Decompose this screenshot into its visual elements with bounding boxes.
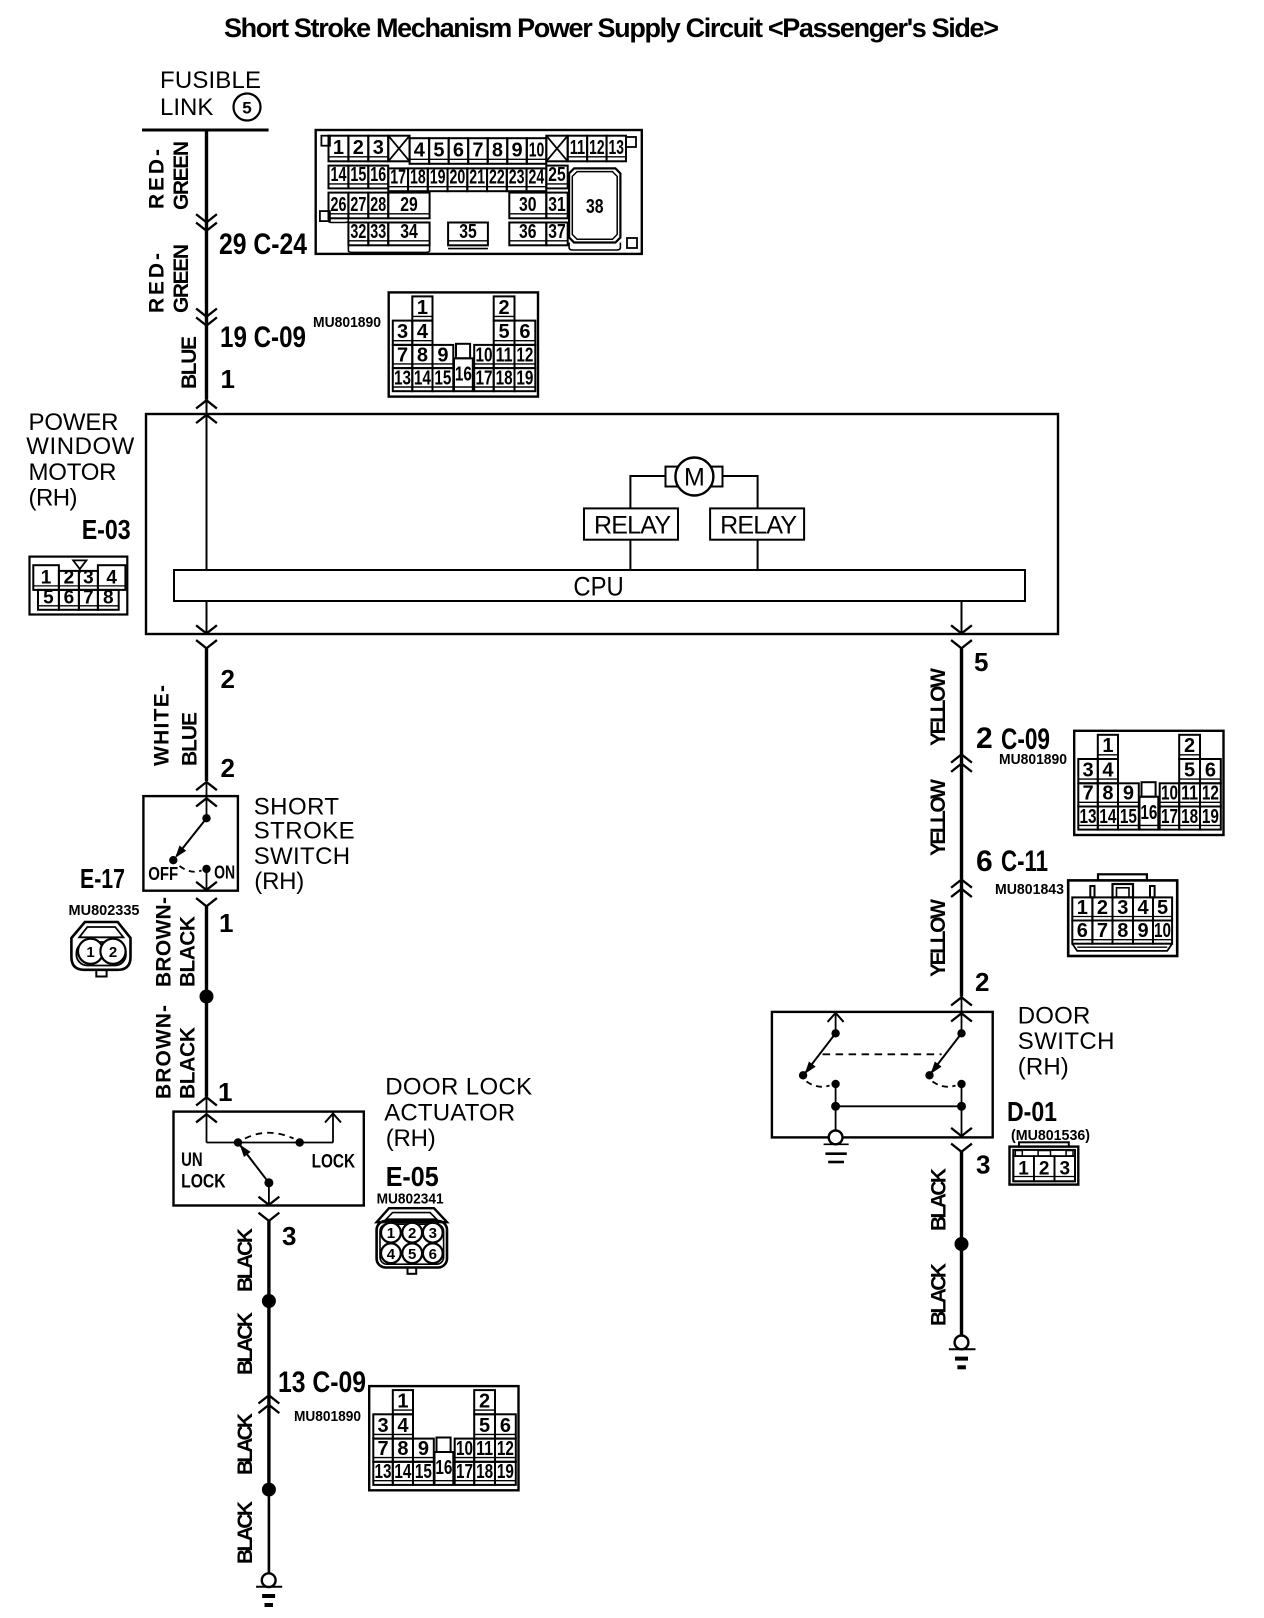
svg-text:12: 12 [1202,783,1219,805]
svg-text:10: 10 [456,1438,473,1460]
svg-text:9: 9 [418,1438,429,1460]
motor circle M [675,458,713,496]
wire from ON contact to switch box bottom [206,869,208,891]
connector view E-17 (2-pin) [71,922,130,977]
svg-text:17: 17 [475,367,492,389]
svg-text:GREEN: GREEN [170,141,193,210]
splice junction dot [200,990,214,1004]
wire: CPU to box bottom (left, pin 2) [206,601,208,634]
svg-text:4: 4 [397,1415,409,1437]
svg-text:3: 3 [377,1415,388,1437]
door switch left lower contact dot [831,1080,839,1088]
chevrons at motor box exit left [197,626,216,648]
svg-text:16: 16 [1140,802,1157,824]
svg-text:32: 32 [350,221,366,243]
svg-text:11: 11 [496,344,513,366]
chevrons at switch exit (E-17 pin 1) [197,883,216,907]
door lock actuator name text [384,1074,532,1153]
svg-text:2: 2 [975,967,989,997]
svg-text:9: 9 [437,344,448,366]
svg-text:(RH): (RH) [29,485,78,512]
svg-text:2: 2 [1184,735,1195,757]
svg-text:10: 10 [1161,783,1178,805]
svg-text:OFF: OFF [148,864,178,884]
svg-text:E-05: E-05 [386,1161,439,1192]
svg-text:(RH): (RH) [386,1125,436,1152]
svg-text:7: 7 [472,139,483,161]
svg-text:POWER: POWER [29,409,119,436]
wire color label BROWN-BLACK (lower) [153,1005,200,1099]
svg-text:DOOR LOCK: DOOR LOCK [385,1074,532,1101]
svg-text:14: 14 [414,367,432,389]
svg-text:13: 13 [394,367,411,389]
svg-text:22: 22 [489,167,505,189]
svg-text:6: 6 [1077,920,1088,942]
CPU box [174,570,1025,601]
svg-text:3: 3 [282,1221,296,1251]
svg-text:4: 4 [414,139,426,161]
door switch rail junction dot right [957,1102,966,1111]
motor brush housing rectangle [666,467,723,487]
svg-text:YELLOW: YELLOW [927,668,950,746]
door switch right lower contact dot [957,1080,965,1088]
chevrons at actuator exit (E-05 pin 3) [259,1197,278,1221]
svg-text:15: 15 [434,367,451,389]
wire YELLOW thick segment 3 [960,880,963,997]
label: pin 6 connector C-11 [976,845,1048,878]
svg-text:7: 7 [397,344,408,366]
relay box right [710,508,804,539]
door switch rail junction dot left [831,1102,840,1111]
svg-text:5: 5 [1157,897,1168,919]
splice junction dot right [955,1237,969,1251]
wire BLACK thick segment right 2 [960,1244,963,1336]
svg-text:15: 15 [415,1461,432,1483]
svg-text:1: 1 [397,1391,408,1413]
svg-text:3: 3 [373,137,384,159]
svg-text:19 C-09: 19 C-09 [220,321,306,354]
svg-text:2: 2 [221,753,235,783]
svg-text:5: 5 [433,139,444,161]
svg-text:4: 4 [417,321,429,343]
door switch left branch up-arrow [828,1013,844,1033]
switch OFF contact dot [169,856,177,864]
svg-text:4: 4 [387,1246,396,1263]
svg-text:12: 12 [516,344,533,366]
svg-text:(RH): (RH) [1018,1054,1069,1081]
svg-text:1: 1 [417,297,428,319]
svg-text:LOCK: LOCK [181,1172,226,1193]
svg-text:RELAY: RELAY [720,512,797,540]
svg-text:YELLOW: YELLOW [927,899,950,977]
svg-text:3: 3 [1117,897,1128,919]
svg-text:30: 30 [519,194,537,216]
svg-text:YELLOW: YELLOW [927,779,950,856]
svg-text:1: 1 [218,1077,232,1107]
svg-text:DOOR: DOOR [1018,1003,1091,1030]
svg-text:6: 6 [519,321,530,343]
svg-text:11: 11 [570,137,585,159]
wire BLACK segment to connector C-09 pin 13 [267,1301,270,1393]
connector view C-11 (10-pin, MU801843) [1068,874,1177,956]
svg-text:BLUE: BLUE [178,336,201,389]
svg-text:8: 8 [492,139,503,161]
wire: CPU to box bottom (right, pin 5) [961,601,963,634]
wire YELLOW thick segment 2 [960,754,963,880]
svg-text:ON: ON [214,863,235,883]
svg-text:29 C-24: 29 C-24 [219,228,307,261]
svg-text:17: 17 [390,167,406,189]
wire color label RED-GREEN (upper) [146,141,194,210]
svg-text:14: 14 [394,1461,412,1483]
label UN LOCK [181,1150,226,1193]
svg-text:7: 7 [1097,920,1108,942]
svg-text:BLACK: BLACK [928,1263,951,1326]
svg-text:1: 1 [41,568,52,589]
actuator lever with arrowhead to UNLOCK [236,1142,269,1183]
body ground symbol (right) [949,1336,976,1368]
svg-text:19: 19 [516,367,533,389]
svg-text:35: 35 [459,221,477,243]
svg-text:BLACK: BLACK [177,916,200,987]
svg-text:ACTUATOR: ACTUATOR [384,1100,515,1127]
actuator LOCK contact dot [296,1138,304,1146]
door switch left vertical to rail [835,1084,837,1106]
svg-text:5: 5 [479,1415,490,1437]
svg-text:MU801843: MU801843 [995,881,1064,898]
svg-text:4: 4 [1137,897,1149,919]
svg-text:2: 2 [1097,897,1108,919]
chevrons at door lock actuator entry [197,1097,216,1121]
svg-text:BROWN-: BROWN- [153,897,176,987]
door switch right dashed throw arc [933,1082,956,1087]
svg-text:16: 16 [435,1457,452,1479]
svg-text:8: 8 [417,344,428,366]
svg-text:14: 14 [1099,806,1117,828]
wire BROWN-BLACK thick segment to door lock actuator [205,997,208,1097]
fusible link label [160,67,261,121]
svg-text:GREEN: GREEN [170,244,193,313]
actuator common contact dot [264,1178,273,1187]
svg-text:MOTOR: MOTOR [29,459,117,486]
door switch left dashed throw arc [807,1082,830,1087]
svg-text:5: 5 [43,588,54,609]
svg-text:3: 3 [976,1150,990,1180]
wire color label BROWN-BLACK (upper) [153,897,200,987]
svg-text:10: 10 [529,139,545,161]
wire YELLOW thick segment 1 [960,648,963,753]
wire BLACK final segment to body ground [268,1490,271,1574]
svg-text:8: 8 [1117,920,1128,942]
svg-text:18: 18 [1181,806,1198,828]
svg-text:1: 1 [219,908,233,938]
in-line connector symbol C-24 pin 29 (double chevron) [197,215,216,231]
in-line connector symbol C-09 pin 2 (double chevron) [952,754,971,771]
svg-text:17: 17 [1161,806,1178,828]
switch ON contact dot [202,865,210,873]
svg-text:2: 2 [976,722,993,755]
switch common contact dot [202,814,210,822]
door switch rail horizontal [836,1105,962,1107]
svg-text:18: 18 [410,167,426,189]
svg-text:19: 19 [430,167,446,189]
svg-text:18: 18 [476,1461,493,1483]
wire WHITE-BLUE thick segment [205,648,208,781]
svg-text:BLACK: BLACK [177,1027,200,1099]
door switch left top contact dot [831,1029,839,1037]
svg-text:20: 20 [450,167,466,189]
svg-text:2: 2 [221,664,235,694]
svg-text:1: 1 [1018,1158,1029,1179]
svg-text:18: 18 [496,367,513,389]
svg-text:34: 34 [400,221,418,243]
splice junction dot 2 [262,1294,276,1308]
wire BROWN-BLACK thick segment to splice [205,906,208,996]
svg-text:12: 12 [497,1438,514,1460]
svg-text:7: 7 [1082,783,1093,805]
wire BLACK thick segment right 1 [960,1152,963,1244]
svg-text:3: 3 [397,321,408,343]
svg-text:9: 9 [1123,783,1134,805]
svg-text:13: 13 [375,1461,392,1483]
door switch left lever end dot [799,1071,807,1079]
svg-text:31: 31 [548,194,565,216]
door switch name text [1018,1003,1115,1081]
svg-text:BLACK: BLACK [234,1501,257,1564]
chevrons at door switch entry [952,997,971,1021]
connector view C-09 instance 3 (MU801890, bottom left) [369,1386,518,1490]
door switch right lever with arrowhead [927,1033,961,1076]
svg-text:1: 1 [333,137,344,159]
svg-text:1: 1 [1102,735,1113,757]
svg-text:1: 1 [86,944,94,961]
svg-text:11: 11 [1181,783,1198,805]
door switch left lever with arrowhead [801,1033,835,1076]
actuator UNLOCK contact dot [234,1138,242,1146]
svg-text:2: 2 [109,944,117,961]
chevrons at motor box exit right [952,626,971,648]
relay box left [584,508,678,539]
fusible link bus bar [142,129,269,132]
connector view C-09 instance 1 (MU801890, top left) [389,292,538,396]
wire BLACK segment to splice 3 [267,1393,270,1490]
svg-text:16: 16 [370,164,386,186]
wire: motor left lead to relay [630,475,665,508]
svg-text:2: 2 [1039,1158,1050,1179]
svg-text:12: 12 [589,137,604,159]
svg-text:MU802341: MU802341 [377,1191,444,1208]
connector view C-09 instance 2 (right) [1074,731,1223,835]
svg-text:MU801890: MU801890 [313,314,381,331]
wire into door switch right contact [961,997,963,1033]
svg-text:8: 8 [103,588,114,609]
svg-text:2: 2 [64,568,75,589]
power window motor name text [26,409,134,512]
chevrons at door switch exit (D-01 pin 3) [952,1129,971,1152]
svg-text:10: 10 [1154,920,1171,942]
svg-text:MU801890: MU801890 [294,1408,361,1425]
svg-text:UN: UN [181,1150,203,1171]
svg-text:SWITCH: SWITCH [254,843,350,870]
svg-text:BLACK: BLACK [234,1228,257,1292]
splice junction dot 3 [262,1483,276,1497]
svg-text:6: 6 [453,139,464,161]
svg-text:1: 1 [221,364,235,394]
svg-text:15: 15 [1120,806,1137,828]
svg-text:15: 15 [350,164,366,186]
svg-text:5: 5 [242,99,251,118]
label: pin 2 connector C-09 (right) [976,722,1050,756]
svg-text:7: 7 [83,588,94,609]
wire inside actuator from entry down to contact rail [206,1097,208,1142]
svg-text:E-03: E-03 [82,514,131,545]
in-line connector symbol C-09 pin 19 (double chevron) [197,309,216,325]
short stroke switch name text [254,794,355,896]
svg-text:29: 29 [400,194,418,216]
svg-text:MU801890: MU801890 [999,751,1067,768]
svg-text:9: 9 [1137,920,1148,942]
svg-text:5: 5 [1184,760,1195,782]
svg-text:LINK: LINK [160,94,213,121]
wire from rail to door switch box bottom [961,1106,963,1137]
svg-text:SHORT: SHORT [254,794,340,821]
svg-text:2: 2 [499,297,510,319]
door switch right lever end dot [925,1071,933,1079]
svg-text:37: 37 [548,221,565,243]
door switch (RH) box [772,1012,993,1138]
svg-text:25: 25 [548,164,565,186]
wire: right relay to CPU [757,540,759,570]
chevrons at short stroke switch entry [197,782,216,806]
svg-text:19: 19 [497,1461,514,1483]
svg-text:WHITE-: WHITE- [151,685,174,766]
in-line connector symbol C-11 pin 6 (double chevron) [952,880,971,897]
wire color label WHITE-BLUE [151,685,202,766]
door switch right vertical to rail [961,1084,963,1106]
svg-text:2: 2 [353,137,364,159]
dashed throw arc OFF to ON [180,866,202,872]
svg-text:BLACK: BLACK [234,1413,257,1475]
svg-text:C-11: C-11 [1001,845,1048,878]
svg-text:D-01: D-01 [1007,1096,1057,1127]
door switch internal ground branch [824,1106,849,1162]
svg-text:MU802335: MU802335 [69,902,140,919]
svg-text:33: 33 [370,221,386,243]
svg-text:FUSIBLE: FUSIBLE [160,67,261,94]
wire thin segment into power window motor box [206,400,208,571]
svg-text:2: 2 [479,1391,490,1413]
body ground symbol (left) [256,1573,282,1605]
svg-text:3: 3 [429,1225,437,1242]
actuator contact rail horizontal [207,1142,334,1144]
wire from actuator common to box bottom [268,1183,270,1206]
door switch right top contact dot [957,1029,965,1037]
svg-text:19: 19 [1202,806,1219,828]
svg-text:STROKE: STROKE [254,818,355,845]
svg-text:11: 11 [476,1438,493,1460]
svg-text:1: 1 [387,1225,395,1242]
svg-text:9: 9 [511,139,522,161]
svg-text:21: 21 [469,167,485,189]
svg-text:3: 3 [83,568,94,589]
svg-text:16: 16 [455,363,472,385]
svg-text:27: 27 [350,194,366,216]
switch lever (to OFF position) with arrowhead [172,818,207,860]
connector view D-01 (3-pin, MU801536) [1010,1142,1079,1184]
svg-text:8: 8 [397,1438,408,1460]
svg-text:SWITCH: SWITCH [1018,1028,1115,1055]
svg-text:M: M [684,464,705,492]
svg-text:(RH): (RH) [254,868,304,895]
svg-text:6: 6 [976,845,993,878]
svg-text:14: 14 [331,164,348,186]
wire BLACK thick segment to splice 2 [267,1221,270,1301]
svg-text:13 C-09: 13 C-09 [278,1366,366,1399]
svg-text:17: 17 [456,1461,473,1483]
svg-text:13: 13 [609,137,624,159]
svg-text:BLACK: BLACK [928,1168,951,1231]
dashed throw arc UNLOCK to LOCK [245,1133,294,1139]
svg-text:WINDOW: WINDOW [26,433,134,460]
short stroke switch (RH) box [143,796,238,891]
svg-text:26: 26 [331,194,347,216]
svg-text:4: 4 [106,568,117,589]
svg-text:10: 10 [475,344,492,366]
svg-text:6: 6 [64,588,75,609]
svg-text:28: 28 [370,194,386,216]
svg-text:13: 13 [1080,806,1097,828]
connector view C-24 (pin layout diagram) [316,130,642,254]
svg-text:6: 6 [500,1415,511,1437]
door switch mechanical link dashed line [823,1053,942,1055]
svg-text:RELAY: RELAY [594,512,671,540]
fusible link rating circle 5 [234,94,261,121]
svg-text:1: 1 [1077,897,1088,919]
wire: battery feed RED-GREEN (thick) from fusible link down to power window motor [205,130,208,400]
svg-text:23: 23 [509,167,525,189]
door lock actuator (RH) box [174,1112,364,1206]
wire into switch common contact [206,782,208,818]
svg-text:5: 5 [974,647,988,677]
svg-text:3: 3 [1059,1158,1070,1179]
svg-text:24: 24 [529,167,545,189]
svg-text:CPU: CPU [573,571,623,601]
svg-text:3: 3 [1082,760,1093,782]
svg-text:E-17: E-17 [80,863,125,894]
svg-text:6: 6 [429,1246,437,1263]
wire color label RED-GREEN (lower) [146,244,194,313]
connector view E-05 (6-pin) [377,1208,447,1274]
svg-text:8: 8 [1102,783,1113,805]
in-line connector symbol C-09 pin 13 (double chevron) [259,1395,278,1412]
connector view E-03 (8-pin) [30,557,128,615]
svg-text:BLACK: BLACK [234,1312,257,1375]
svg-text:36: 36 [519,221,537,243]
svg-text:7: 7 [377,1438,388,1460]
svg-text:Short Stroke Mechanism Power S: Short Stroke Mechanism Power Supply Circ… [224,13,999,43]
chevrons at power window motor box entry (E-03 pin 1) [197,400,216,422]
svg-text:6: 6 [1205,760,1216,782]
svg-text:LOCK: LOCK [312,1152,356,1173]
svg-text:BLUE: BLUE [179,712,202,766]
svg-text:2: 2 [408,1225,416,1242]
svg-text:BROWN-: BROWN- [153,1005,176,1099]
svg-text:5: 5 [408,1246,416,1263]
svg-text:38: 38 [586,196,604,218]
power window motor (RH) outer box [146,414,1058,634]
svg-text:5: 5 [499,321,510,343]
actuator right branch vertical with up arrow (LOCK side) [325,1112,341,1143]
